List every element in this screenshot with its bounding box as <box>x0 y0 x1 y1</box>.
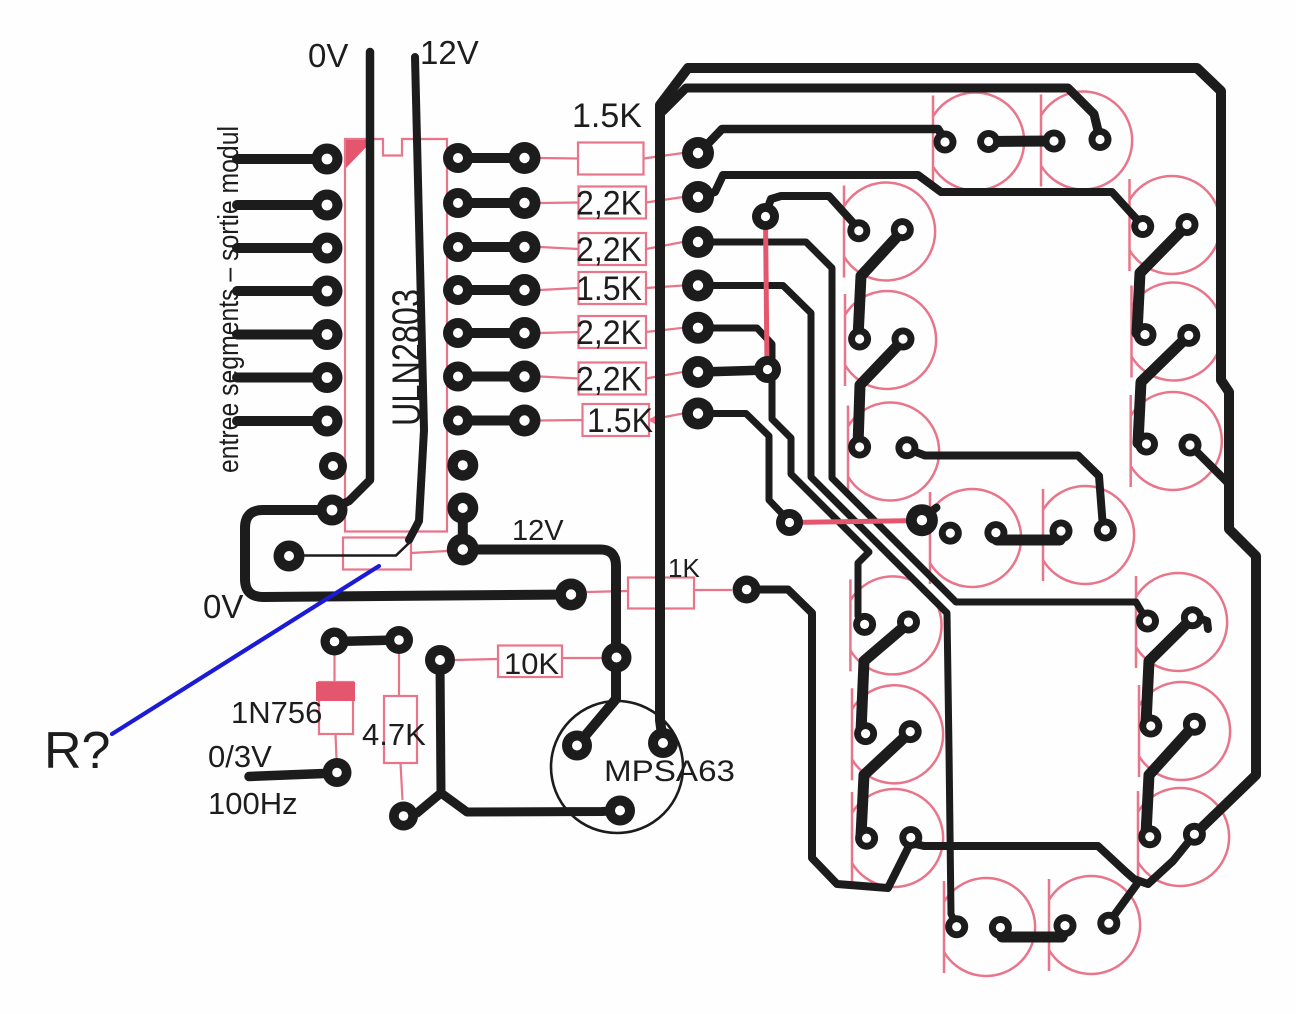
wire segment g series link <box>996 533 1061 540</box>
wire U1 output link row 5 <box>458 328 524 338</box>
pad LED b3 left <box>1135 433 1158 456</box>
LED segment a1 outline <box>933 93 1024 191</box>
wire LED e1 to e2 series link <box>861 623 909 732</box>
wire input trace row 7 (segment input) <box>237 416 327 426</box>
svg-text:12V: 12V <box>420 34 479 71</box>
svg-text:2,2K: 2,2K <box>576 314 642 352</box>
LED segment a2 outline <box>1041 91 1132 189</box>
transistor Q1 MPSA63 outline circle <box>551 701 683 833</box>
wire U1 supply pin to 12V rail <box>458 508 468 550</box>
wire resistor R6 left lead <box>540 377 579 379</box>
wire U1 output link row 7 <box>458 416 524 426</box>
LED segment d2 outline <box>1049 876 1140 974</box>
pad resistor R6 left terminal <box>509 361 541 393</box>
wire 0V supply line down left side of U1 <box>336 52 370 507</box>
wire U1 output link row 3 <box>458 242 524 252</box>
wire segment a series link <box>989 136 1054 148</box>
wire segment d series link <box>1000 927 1065 937</box>
LED segment e1 outline <box>850 576 941 674</box>
wire 0/3V input trace <box>249 773 337 777</box>
pad LED e1 right <box>897 611 920 634</box>
svg-text:MPSA63: MPSA63 <box>604 755 735 788</box>
svg-text:1.5K: 1.5K <box>572 97 642 135</box>
pad U1 output pin row 1 <box>443 143 473 173</box>
svg-text:2,2K: 2,2K <box>576 185 642 223</box>
U1 pin-1 marker triangle <box>346 140 373 168</box>
LED segment b3 outline <box>1131 392 1222 490</box>
resistor R7 body outline <box>583 404 650 436</box>
pad U1 input pin row 6 <box>312 362 343 393</box>
LED segment f2 outline <box>845 291 936 389</box>
pad LED a2 anode <box>1043 130 1066 153</box>
pad LED e3 right <box>899 826 922 849</box>
wire LED b1 to b2 series link <box>1137 225 1187 333</box>
svg-text:12V: 12V <box>512 515 564 547</box>
resistor R? body outline (unknown value) <box>343 538 411 570</box>
pad 0V node bottom rail <box>555 579 587 611</box>
wire resistor R2 left lead <box>540 201 579 204</box>
wire input trace row 2 (segment input) <box>237 200 327 210</box>
wire U1 output link row 4 <box>458 285 524 295</box>
arrowhead on R7 lead <box>648 413 660 427</box>
pad resistor 1K right terminal <box>733 576 761 604</box>
wire net row6 to jumper pad <box>701 370 766 372</box>
pad U1 output pin row 2 <box>443 188 473 218</box>
pad U1 output pin row 6 <box>443 362 473 392</box>
svg-text:entree segments – sortie modul: entree segments – sortie modul <box>213 126 245 473</box>
pad LED c2 left <box>1139 715 1162 738</box>
svg-text:1.5K: 1.5K <box>576 270 642 308</box>
LED segment e2 outline <box>852 685 943 783</box>
pad U1 output pin row 7 <box>443 406 473 436</box>
wire net row3 to segment c top pad <box>701 242 1146 619</box>
wire input trace row 3 (segment input) <box>237 243 327 253</box>
pad resistor R4 right terminal / net node row 4 <box>682 270 714 302</box>
wire 12V rail to 10K and MPSA63 emitter <box>463 550 616 746</box>
svg-text:100Hz: 100Hz <box>208 786 298 821</box>
svg-text:1K: 1K <box>668 553 700 583</box>
pad resistor R3 left terminal <box>509 231 541 263</box>
pad LED e1 left <box>853 613 876 636</box>
op-amp/driver IC U1 ULN2803 outline with pin-1 notch <box>345 139 447 532</box>
pad LED b2 right <box>1177 324 1200 347</box>
svg-text:4.7K: 4.7K <box>362 717 426 752</box>
wire net row1 to segment a left pad <box>700 129 945 152</box>
pad U1 output pin row 3 <box>443 232 473 262</box>
pad resistor R1 left terminal <box>509 142 541 174</box>
wire resistor R1 right lead <box>644 153 684 159</box>
wire resistor R5 left lead <box>540 332 579 333</box>
wire jumper W1 top pad to segment f top pad <box>766 196 858 227</box>
LED segment g2 outline <box>1043 486 1134 584</box>
wire 12V supply line through U1 <box>409 57 424 540</box>
pad LED b1 left <box>1131 215 1154 238</box>
zener D1 cathode band (red) <box>316 682 355 701</box>
svg-text:2,2K: 2,2K <box>576 231 642 269</box>
wire LED c1 to c2 series link <box>1146 618 1192 724</box>
svg-text:1.5K: 1.5K <box>587 402 653 440</box>
pad resistor R5 left terminal <box>509 317 541 349</box>
wire input trace row 1 (segment input) <box>237 154 327 164</box>
wire resistor R1 left lead <box>540 157 578 160</box>
wire input trace row 5 (segment input) <box>237 330 327 340</box>
pad LED g1 left <box>939 522 962 545</box>
pad LED f2 top <box>848 328 871 351</box>
resistor R9 10K body outline <box>498 646 562 678</box>
LED segment e3 outline <box>852 789 943 887</box>
pad jumper W2 left <box>776 509 803 536</box>
pad resistor R6 right terminal / net node row 6 <box>682 356 714 388</box>
wire zener D1 top lead <box>333 655 335 683</box>
pad LED c3 left <box>1138 825 1161 848</box>
wire jumper W2 pad stub to segment g <box>922 508 937 520</box>
svg-text:0V: 0V <box>203 588 243 625</box>
pad LED e3 left <box>855 827 878 850</box>
pad jumper W1 bottom <box>754 356 781 383</box>
pad LED c3 right <box>1183 823 1206 846</box>
wire LED c2 to c3 series link <box>1146 725 1194 834</box>
pad LED d2 left <box>1054 914 1077 937</box>
svg-text:1N756: 1N756 <box>231 695 322 730</box>
LED segment d1 outline <box>944 878 1035 976</box>
pad LED b3 right <box>1179 434 1202 457</box>
LED segment f3 outline <box>848 402 939 500</box>
pad resistor R4 left terminal <box>509 274 541 306</box>
wire top link 1N756 to 4.7K <box>335 640 400 642</box>
pad U1 input pin row 7 <box>312 406 343 437</box>
pad resistor R2 left terminal <box>509 187 541 219</box>
wire common return segment e to segment c bottom pad <box>911 835 1194 884</box>
pad LED a1 cathode <box>977 130 1000 153</box>
wire branch to 4.7K bottom pad <box>404 793 441 816</box>
wire segment a right pad to collector trace (inner top run) <box>663 88 1100 139</box>
wire stub at LED c1 right pad <box>1196 617 1208 629</box>
svg-text:ULN2803: ULN2803 <box>385 289 429 426</box>
pad LED b1 right <box>1176 213 1199 236</box>
pad resistor R2 right terminal / net node row 2 <box>682 181 714 213</box>
pad LED b2 left <box>1134 323 1157 346</box>
resistor R8 1K body outline <box>628 578 694 609</box>
wire resistor R5 right lead <box>646 328 683 332</box>
wire LED b2 to b3 series link <box>1138 335 1189 443</box>
wire LED f1 to f2 series link <box>858 231 902 338</box>
pad LED e2 left <box>854 722 877 745</box>
wire resistor R9 10K left lead <box>455 659 498 660</box>
wire LED f2 to f3 series link <box>858 340 903 446</box>
pad LED d1 right <box>989 916 1012 939</box>
wire resistor R7 left lead <box>540 419 583 422</box>
wire resistor R4 left lead <box>540 288 579 290</box>
pad Q1 emitter <box>562 731 592 761</box>
pad LED g1 right <box>984 521 1007 544</box>
pad U1 input pin row 2 <box>312 190 343 221</box>
pad 0/3V input node <box>323 758 352 787</box>
resistor R5 body outline <box>579 316 647 348</box>
pad U1 output pin row 5 <box>443 318 473 348</box>
resistor R4 body outline <box>579 272 647 304</box>
wire input trace row 4 (segment input) <box>237 286 327 296</box>
pad U1 input pin row 1 <box>312 144 343 175</box>
wire main border trace: MPSA63 collector up left side, across top, down right side to segment c <box>660 68 1256 833</box>
annotation pointer line (blue) to R? <box>112 566 379 734</box>
resistor R6 body outline <box>579 363 647 395</box>
pad LED g2 right <box>1094 519 1117 542</box>
pad U1 supply pin row 9 <box>447 493 478 524</box>
pad LED c1 left <box>1136 610 1159 633</box>
wire MPSA63 base node up to 10K pad <box>440 661 620 812</box>
pad 12V rail node <box>447 534 479 566</box>
pad Q1 collector <box>648 728 678 758</box>
svg-text:R?: R? <box>44 722 110 780</box>
wire 0V wrap-around trace from U1 ground pin to bottom 0V pad <box>245 510 571 597</box>
wire resistor 4.7K bottom lead <box>401 763 403 800</box>
svg-text:0V: 0V <box>308 37 348 74</box>
wire resistor 4.7K top lead <box>398 654 400 696</box>
wire resistor R3 left lead <box>540 247 579 249</box>
wire resistor R3 right lead <box>646 242 683 249</box>
LED segment c2 outline <box>1139 682 1230 780</box>
wire U1 output link row 1 <box>458 153 524 163</box>
zener diode D1 1N756 body outline <box>319 682 353 734</box>
pad U1 output pin row 4 <box>443 275 473 305</box>
pad LED d1 left <box>945 915 968 938</box>
pad LED c2 right <box>1183 713 1206 736</box>
wire segment b bottom pad to border trace <box>1190 445 1228 483</box>
LED segment g1 outline <box>930 489 1021 587</box>
pad LED d2 right <box>1097 912 1120 935</box>
pad U1 pin row 8 (unconnected) <box>319 452 347 480</box>
pad zener D1 top terminal <box>321 628 349 656</box>
wire R? right lead to 12V pad <box>411 551 447 553</box>
wire zener D1 bottom lead <box>336 734 337 759</box>
LED segment b1 outline <box>1130 176 1221 274</box>
wire 1K node to lower display common <box>747 590 910 889</box>
pad LED a2 cathode <box>1089 128 1112 151</box>
pad R? left terminal <box>274 541 305 572</box>
LED segment c3 outline <box>1138 788 1229 886</box>
pad LED c1 right <box>1181 606 1204 629</box>
wire U1 output link row 2 <box>458 198 524 208</box>
pad U1 input pin row 3 <box>312 233 343 264</box>
wire net row7 to jumper pad <box>702 414 789 522</box>
LED segment b2 outline <box>1132 282 1223 380</box>
jumper wire W1 (red) vertical: row6 net up to segment f feed <box>766 218 768 368</box>
resistor R2 body outline <box>579 187 647 219</box>
pad resistor R3 right terminal / net node row 3 <box>682 226 714 258</box>
wire resistor R6 right lead <box>646 372 683 379</box>
svg-text:0/3V: 0/3V <box>208 739 272 774</box>
pad 10K right terminal on 12V rail <box>602 643 632 673</box>
pad U1 ground pin row 9 <box>317 495 348 526</box>
resistor 4.7K body outline <box>384 696 417 763</box>
pad LED f1 top <box>847 219 870 242</box>
wire resistor R7 right lead <box>649 414 683 421</box>
pad jumper W1 top <box>752 203 779 230</box>
wire thin jumper of R? from big pad to 12V line <box>299 543 409 556</box>
wire net row4 to segment d left pad <box>700 286 957 927</box>
LED segment c1 outline <box>1136 573 1227 671</box>
wire segment f bottom to segment g right pad <box>908 449 1103 528</box>
wire common return branch to segment d right pad <box>1110 884 1137 921</box>
pad LED f3 top <box>848 436 871 459</box>
pad 4.7K / base node bottom <box>389 802 418 831</box>
pad resistor R5 right terminal / net node row 5 <box>682 312 714 344</box>
wire resistor R4 right lead <box>646 286 683 289</box>
pad LED e2 right <box>899 720 922 743</box>
pad LED f1 bottom <box>891 218 914 241</box>
resistor R1 body outline <box>578 143 644 175</box>
wire resistor R8 1K right lead <box>694 589 732 591</box>
pad resistor R9 10K left terminal <box>425 645 455 675</box>
pad LED a1 anode <box>934 131 957 154</box>
pad LED f2 bottom <box>892 328 915 351</box>
wire resistor R9 10K right lead <box>562 657 604 659</box>
pad Q1 base <box>605 796 635 826</box>
resistor R3 body outline <box>579 233 647 265</box>
pad U1 input pin row 4 <box>312 276 343 307</box>
wire resistor R2 right lead <box>646 197 683 203</box>
svg-text:2,2K: 2,2K <box>576 361 642 399</box>
LED segment f1 outline <box>844 183 935 281</box>
pad jumper W2 right <box>906 504 938 536</box>
svg-text:10K: 10K <box>504 648 559 681</box>
wire U1 output link row 6 <box>458 372 524 382</box>
wire net row2 to segment b top pad <box>699 175 1141 224</box>
pad resistor R7 right terminal / net node row 7 <box>682 398 714 430</box>
pad resistor R7 left terminal <box>509 405 541 437</box>
wire net row5 to segment e top pad <box>700 328 869 623</box>
pad resistor 4.7K top terminal <box>385 626 413 654</box>
pad U1 pin row 8 right (unconnected) <box>447 450 478 481</box>
wire input trace row 6 (segment input) <box>237 373 327 383</box>
jumper wire W2 (red) horizontal: row7 net to segment g feed <box>790 521 920 523</box>
pad resistor R1 right terminal / net node row 1 <box>682 137 714 169</box>
wire LED e2 to e3 series link <box>861 732 910 836</box>
pad U1 input pin row 5 <box>312 319 343 350</box>
pad LED f3 bottom <box>895 436 918 459</box>
pad LED g2 left <box>1050 520 1073 543</box>
wire resistor R8 1K left lead <box>587 591 628 592</box>
